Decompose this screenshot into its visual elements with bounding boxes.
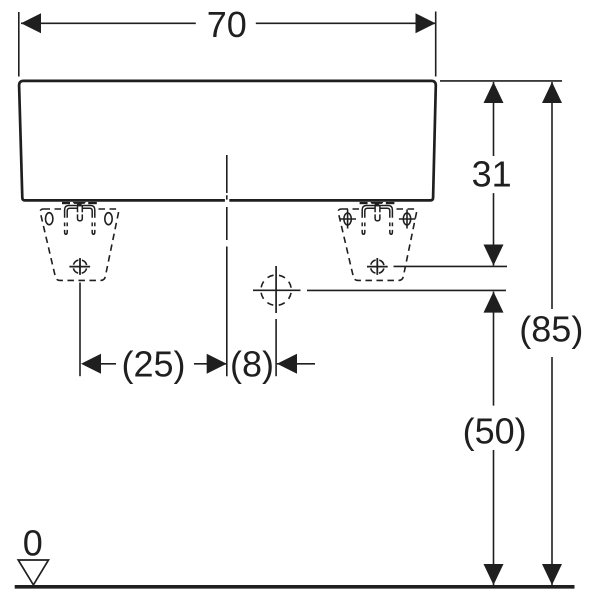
dimension line 70 — [21, 22, 436, 24]
arrow 50 top — [484, 292, 504, 313]
left fixing bolt dashed circle — [73, 260, 87, 274]
right clip leg feet — [362, 230, 392, 234]
right clip teeth (black) — [360, 202, 395, 207]
extension line left fixing bolt (25 dim) — [79, 283, 81, 377]
floor line — [15, 585, 575, 589]
arrow 25 right — [207, 354, 227, 374]
arrow 31 top — [484, 82, 504, 103]
right clip notch walls — [375, 206, 380, 213]
arrow 70 left — [21, 13, 41, 33]
right bracket slot left — [344, 213, 351, 225]
right bracket slot right — [403, 213, 410, 225]
datum triangle — [18, 560, 48, 585]
svg-text:70: 70 — [207, 4, 247, 45]
dimension line (85) — [551, 82, 553, 585]
left bracket slot left — [46, 213, 53, 225]
left clip white mask — [65, 206, 95, 219]
drain dashed circle — [261, 275, 291, 305]
extension line drain level (50 dim) — [307, 289, 506, 291]
dimension line (25)/(8) row — [101, 363, 315, 365]
arrow 70 right — [416, 13, 436, 33]
left fixing bolt crosshair — [69, 258, 90, 275]
extension line right (70 dim) — [435, 12, 437, 77]
right clip dashed legs — [362, 223, 392, 227]
right clip notch U — [375, 214, 380, 220]
left clip notch walls — [78, 206, 83, 213]
arrow 85 bottom — [542, 564, 562, 585]
svg-text:(8): (8) — [230, 344, 274, 385]
extension line top of basin (31 / 85 dims) — [440, 80, 562, 82]
right clip white mask — [362, 206, 392, 219]
extension line drain axis (8 dim) — [275, 319, 277, 376]
left clip outer contour — [65, 206, 95, 218]
arrow 25 left — [81, 354, 101, 374]
dimension line (50) — [493, 292, 495, 585]
left clip inner contour — [67, 208, 92, 217]
right clip inner contour — [365, 208, 390, 217]
dimension line 31 — [493, 82, 495, 266]
right bracket slot right crosshair — [399, 210, 416, 229]
extension line bracket-screw level (31 dim) — [394, 265, 508, 267]
svg-text:(25): (25) — [121, 344, 185, 385]
arrow 8 right — [277, 354, 297, 374]
svg-text:(50): (50) — [463, 411, 527, 452]
right bracket slot left crosshair — [340, 210, 357, 229]
svg-text:(85): (85) — [519, 309, 583, 350]
arrow 50 bottom — [484, 564, 504, 585]
svg-text:31: 31 — [472, 154, 512, 195]
left clip notch U — [78, 214, 83, 220]
left bracket slot right — [105, 213, 112, 225]
washbasin body outline — [19, 81, 436, 200]
right bracket dashed trapezoid — [338, 209, 416, 280]
arrow 31 bottom — [484, 245, 504, 266]
centerline (basin axis) — [226, 155, 228, 376]
right clip outer contour — [362, 206, 392, 218]
svg-text:0: 0 — [23, 523, 43, 564]
left clip dashed legs — [65, 223, 95, 227]
extension line left (70 dim) — [18, 12, 20, 77]
left clip teeth (black) — [62, 202, 97, 207]
arrow 85 top — [542, 82, 562, 103]
right fixing bolt dashed circle — [371, 260, 385, 274]
drain crosshair — [253, 266, 301, 313]
right fixing bolt crosshair — [367, 258, 388, 275]
left clip leg feet — [65, 230, 95, 234]
left bracket dashed trapezoid — [40, 209, 118, 280]
